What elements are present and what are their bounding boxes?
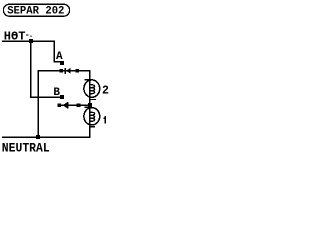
diode B cathode bar [67, 102, 69, 108]
terminal square right of diode B [77, 103, 81, 107]
diode A triangle [66, 68, 71, 74]
lamp 2 top tick [85, 79, 92, 80]
label 1 [104, 116, 106, 123]
diode B triangle [63, 103, 67, 109]
terminal square right of diode A [76, 69, 80, 73]
svg-text:B: B [53, 87, 60, 99]
wire diode A line [37, 70, 90, 72]
wire B horizontal [30, 97, 60, 99]
junction dot lamp column / diode B [88, 103, 92, 107]
junction on NEUTRAL rail [36, 135, 40, 139]
terminal B square [60, 95, 64, 99]
title box SEPAR 202 [3, 4, 69, 16]
wire HOT to A drop [53, 40, 55, 61]
lamp 1 filament [90, 112, 94, 121]
svg-text:A: A [56, 51, 63, 63]
svg-text:NEUTRAL: NEUTRAL [2, 141, 50, 156]
lamp 2 filament [90, 85, 94, 94]
terminal square left of diode A [59, 69, 63, 73]
svg-text:2: 2 [102, 85, 109, 98]
wire diode B line [59, 104, 89, 106]
lamp 1 circle [84, 108, 100, 125]
terminal A square [60, 61, 64, 65]
lamp 2 bottom tick [89, 99, 96, 100]
svg-text:SEPAR 202: SEPAR 202 [7, 5, 64, 17]
wire HOT rail [2, 40, 55, 42]
terminal square left of diode B [58, 103, 62, 107]
wire lamp column vertical [89, 70, 91, 138]
label 1 flag [103, 118, 104, 119]
bar in O of HOT [12, 34, 17, 35]
tick after HOT [26, 34, 29, 35]
diode A cathode bar [64, 68, 66, 74]
wire HOT to B drop [30, 41, 32, 98]
lamp 1 bottom tick [89, 126, 95, 127]
wire jog to terminal A [53, 61, 60, 63]
stub above junction [30, 36, 31, 37]
junction on HOT rail [29, 39, 33, 43]
lamp 2 circle [84, 80, 100, 97]
wire NEUTRAL rail [2, 137, 91, 139]
wire left return vertical [37, 70, 39, 138]
lamp 1 top tick [85, 107, 92, 108]
